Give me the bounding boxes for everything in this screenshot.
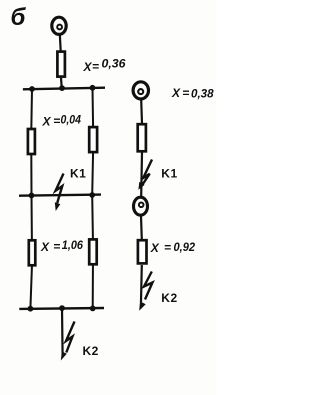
svg-text:K1: K1	[70, 167, 86, 181]
junction bus3 left	[28, 306, 34, 312]
svg-text:0,04: 0,04	[61, 112, 82, 126]
generator G3 (right diagram, second machine)	[134, 197, 148, 215]
wire G2 to X6	[140, 100, 143, 124]
wire X3 to bus2	[91, 151, 94, 195]
wire X1 to bus1	[60, 78, 63, 90]
junction bus1 center	[59, 85, 65, 91]
svg-text:=: =	[53, 240, 60, 254]
junction bus1 right	[90, 85, 96, 91]
fault K1 lightning (left diagram, on bus 2)	[55, 174, 64, 212]
wire X6 down across fault K1	[140, 153, 143, 197]
fault K2 lightning (left diagram)	[61, 322, 75, 361]
svg-text:X: X	[83, 60, 93, 74]
svg-text:K1: K1	[161, 166, 177, 180]
svg-text:0,36: 0,36	[102, 57, 126, 71]
wire bus2 to X4 (left branch)	[31, 195, 33, 241]
junction bus1 left	[29, 86, 35, 92]
svg-text:=: =	[164, 241, 171, 255]
svg-text:б: б	[11, 4, 27, 31]
junction bus2 right	[89, 192, 95, 198]
svg-text:=: =	[182, 86, 189, 100]
svg-text:X: X	[40, 240, 50, 254]
svg-text:0,92: 0,92	[174, 240, 196, 254]
reactance X3	[89, 127, 97, 152]
svg-text:=: =	[92, 60, 99, 74]
svg-text:X: X	[171, 86, 181, 100]
wire X7 down to fault K2 arrow	[140, 265, 143, 302]
fault K1 lightning (right diagram)	[138, 160, 152, 190]
wire G1 to X1	[59, 34, 62, 51]
reactance X2	[28, 129, 35, 154]
reactance X6	[138, 124, 146, 151]
fault K2 lightning (right diagram)	[139, 272, 152, 311]
wire bus2 to X5 (right branch)	[91, 195, 94, 241]
reactance X1 (system)	[57, 52, 65, 77]
generator G2 (right diagram top)	[133, 82, 148, 99]
reactance X7	[138, 240, 147, 263]
svg-text:K2: K2	[83, 344, 99, 358]
svg-text:=: =	[53, 114, 60, 128]
svg-text:X: X	[150, 241, 160, 255]
bus 3	[19, 307, 104, 310]
wire bus3 stub down to fault K2	[61, 308, 64, 355]
wire bus1 to X3 (right branch)	[92, 88, 95, 129]
bus 1	[23, 88, 105, 90]
wire X2 to bus2	[30, 153, 32, 196]
junction bus2 left	[29, 193, 35, 199]
junction bus3 center	[59, 305, 65, 311]
generator G1	[52, 17, 66, 34]
svg-text:X: X	[42, 115, 52, 129]
svg-text:1,06: 1,06	[62, 238, 83, 252]
reactance X4	[29, 240, 36, 265]
wire bus1 to X2 (left branch)	[30, 89, 33, 130]
junction bus3 right	[90, 306, 96, 312]
wire X5 to bus3	[92, 263, 94, 309]
svg-text:K2: K2	[161, 291, 177, 305]
svg-text:0,38: 0,38	[191, 86, 214, 100]
wire G3 to X7	[140, 216, 143, 240]
reactance X5	[89, 239, 97, 264]
wire X4 to bus3	[30, 265, 32, 309]
bus 2	[19, 195, 101, 196]
